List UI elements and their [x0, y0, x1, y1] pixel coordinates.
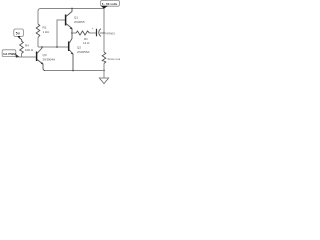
callout In1 PWM (lower left)	[2, 50, 19, 58]
svg-text:2N3055: 2N3055	[74, 20, 85, 24]
svg-text:2N3055A: 2N3055A	[77, 50, 90, 54]
svg-text:Q3: Q3	[43, 53, 47, 57]
svg-text:14 Ω: 14 Ω	[83, 41, 90, 45]
wire bottom rail	[44, 70, 104, 72]
svg-text:2N3904A: 2N3904A	[43, 57, 56, 61]
svg-text:1 kΩ: 1 kΩ	[43, 30, 50, 34]
node junction capacitor to right rail	[103, 32, 105, 34]
wire left rail	[37, 11, 39, 24]
transistor Q1	[66, 9, 85, 34]
svg-text:5v: 5v	[16, 32, 20, 36]
wire top rail	[38, 9, 104, 14]
transistor Q2	[69, 33, 90, 71]
svg-text:Q2: Q2	[77, 46, 81, 50]
wire node line (base node)	[38, 46, 68, 48]
svg-text:R2: R2	[43, 26, 47, 30]
svg-text:Some Load: Some Load	[108, 57, 121, 61]
transistor Q3	[37, 47, 55, 71]
resistor R2	[36, 24, 49, 38]
callout 5v (upper left)	[14, 29, 24, 42]
svg-text:In1 PWM: In1 PWM	[3, 52, 16, 56]
node junction bottom right	[103, 70, 105, 72]
wire base line from callout	[19, 56, 22, 58]
svg-text:Q1: Q1	[74, 16, 78, 20]
resistor load	[102, 52, 122, 64]
callout 5 - 50 volts (top right)	[101, 0, 120, 8]
wire right rail	[103, 9, 105, 34]
wire load to bottom rail	[103, 64, 105, 71]
wire Q1 base drop	[57, 20, 65, 47]
wire right rail mid	[103, 33, 105, 52]
ground	[99, 71, 108, 84]
svg-text:R4: R4	[25, 44, 29, 48]
svg-text:5 - 50 volts: 5 - 50 volts	[102, 2, 118, 6]
node junction Q3 collector on node line	[41, 46, 43, 48]
wire R1 to capacitor	[90, 32, 97, 34]
wire R4 bottom to Q3 base	[22, 54, 37, 58]
node junction Q2 emitter on bottom rail	[72, 70, 74, 72]
node junction at 57,47	[56, 46, 58, 48]
wire emitter node to R1	[72, 32, 76, 34]
resistor R4	[20, 41, 34, 54]
svg-text:100 Ω: 100 Ω	[25, 48, 34, 52]
node junction Q1 emitter / R1 / Q2 collector	[71, 32, 73, 34]
svg-text:FARADS: FARADS	[105, 33, 115, 36]
wire R2 bottom to node line	[37, 38, 39, 48]
resistor R1	[76, 31, 90, 45]
node junction Q1 collector on top rail	[71, 8, 73, 10]
capacitor C1	[92, 27, 115, 36]
svg-text:+: +	[92, 27, 94, 31]
